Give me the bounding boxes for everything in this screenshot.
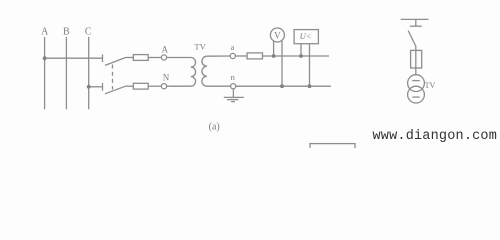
voltage relay U< box: [294, 30, 318, 44]
wire terminal a to secondary fuse: [235, 55, 247, 57]
right figure: wire blade to fuse: [415, 46, 417, 75]
fuse FU secondary: [247, 53, 262, 59]
svg-text:www.diangon.com: www.diangon.com: [373, 129, 498, 144]
svg-text:U<: U<: [300, 31, 312, 41]
ground lead below terminal n: [232, 89, 234, 98]
TV primary winding: [191, 58, 196, 87]
busbar A: [44, 37, 46, 109]
TV secondary winding: [202, 56, 207, 86]
svg-text:(a): (a): [209, 121, 220, 132]
disconnector upper blade: [105, 58, 126, 66]
busbar B: [65, 37, 67, 109]
ground bar 2: [227, 99, 238, 101]
voltmeter right lead: [281, 41, 283, 87]
svg-text:TV: TV: [425, 81, 436, 90]
figure (b) cut-off rectangle at bottom: [310, 144, 355, 154]
right figure: TV transformer secondary circle: [408, 86, 425, 103]
wire upper tap from busbar A: [45, 57, 103, 59]
voltmeter left lead: [273, 41, 275, 56]
svg-text:C: C: [85, 26, 92, 37]
wire terminal A to TV primary: [167, 57, 191, 59]
right figure: bus stub: [415, 19, 417, 26]
svg-text:A: A: [41, 26, 49, 37]
node voltmeter on top rail: [272, 54, 276, 58]
disconnector linkage (dashed): [112, 65, 114, 90]
right figure: disconnector fixed bar: [410, 25, 422, 27]
relay right lead: [309, 44, 311, 86]
right figure: disconnector blade: [408, 31, 416, 46]
terminal n circle: [231, 84, 236, 89]
svg-text:A: A: [161, 45, 168, 55]
wire top secondary rail: [263, 55, 330, 57]
wire lower tap from busbar C: [89, 86, 103, 88]
svg-text:TV: TV: [194, 41, 206, 51]
busbar C: [88, 37, 90, 109]
fuse FU upper (phase): [133, 55, 148, 61]
right figure: busbar: [401, 18, 429, 20]
wire terminal N to TV primary bottom: [167, 85, 191, 87]
ground bar 3: [231, 101, 235, 103]
node junction on busbar C: [87, 85, 91, 89]
relay left lead: [300, 44, 302, 56]
wire upper fuse to terminal A: [148, 57, 161, 59]
wire lower fuse to terminal N: [148, 85, 161, 87]
node relay on top rail: [299, 54, 303, 58]
node voltmeter on bottom rail: [280, 84, 284, 88]
right figure: secondary winding dash: [412, 96, 419, 98]
node relay on bottom rail: [308, 84, 312, 88]
wire TV secondary bottom to terminal n: [207, 85, 231, 87]
svg-text:N: N: [163, 73, 170, 83]
right figure: fuse rect: [411, 50, 422, 68]
svg-text:V: V: [274, 30, 281, 40]
terminal N circle: [161, 84, 166, 89]
wire TV secondary top to terminal a: [207, 55, 230, 57]
wire blade to upper fuse: [126, 57, 134, 59]
node junction on busbar A: [43, 56, 47, 60]
fuse FU lower (neutral): [133, 83, 148, 89]
ground bar 1: [224, 96, 244, 98]
svg-text:n: n: [231, 72, 236, 82]
right figure: primary winding dash: [412, 80, 419, 82]
wire bottom secondary rail: [236, 85, 331, 87]
svg-text:a: a: [231, 42, 235, 52]
right figure: TV transformer primary circle: [408, 75, 425, 92]
terminal a circle: [230, 53, 235, 58]
voltmeter V circle: [270, 28, 284, 42]
disconnector upper fixed contact tick: [102, 54, 104, 62]
wire blade to lower fuse: [126, 85, 134, 87]
disconnector lower fixed contact tick: [102, 83, 104, 91]
disconnector lower blade: [105, 86, 126, 94]
svg-text:B: B: [63, 26, 70, 37]
terminal A circle: [161, 55, 166, 60]
